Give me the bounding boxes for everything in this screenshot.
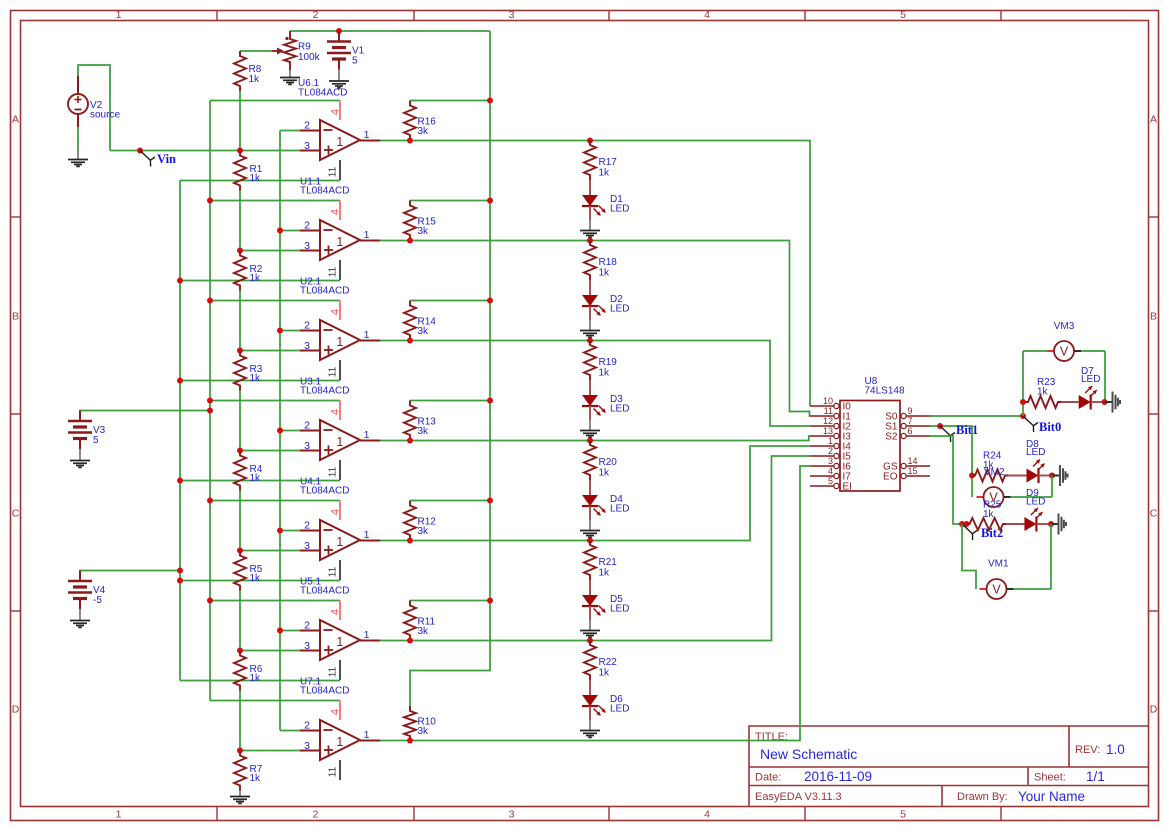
pull-up resistor R12: [410, 500, 490, 502]
U8 pin 15 (EO): [901, 473, 906, 478]
svg-text:1: 1: [364, 429, 370, 441]
svg-text:3k: 3k: [418, 326, 430, 337]
svg-text:1k: 1k: [599, 168, 611, 179]
svg-text:1: 1: [116, 9, 122, 21]
op-amp U1 pin stubs: [300, 130, 320, 132]
voltmeter VM2 loop: [971, 496, 973, 498]
svg-text:4: 4: [330, 109, 342, 115]
LED D5: [582, 595, 598, 606]
U8 pin 7 (S1): [901, 423, 906, 428]
svg-text:11: 11: [824, 406, 833, 416]
svg-text:2016-11-09: 2016-11-09: [804, 769, 872, 784]
voltmeter VM3 loop: [1023, 350, 1047, 352]
ladder resistor R2: [234, 251, 246, 291]
LED chain R17/D1: [587, 138, 593, 144]
svg-text:1: 1: [364, 129, 370, 141]
svg-text:D: D: [12, 704, 20, 716]
svg-text:1: 1: [336, 335, 343, 349]
svg-text:EO: EO: [883, 472, 898, 483]
stage 6 inverting input wire: [280, 630, 300, 632]
ground R7: [239, 791, 241, 797]
svg-text:1: 1: [364, 329, 370, 341]
svg-text:R20: R20: [599, 457, 618, 468]
ground D9: [1051, 523, 1059, 525]
stage 3 output wire: [380, 341, 810, 427]
svg-text:1: 1: [336, 135, 343, 149]
svg-text:2: 2: [304, 320, 310, 332]
svg-text:15: 15: [908, 466, 918, 476]
stage 3 inverting input wire: [280, 330, 300, 332]
svg-text:3: 3: [509, 9, 515, 21]
svg-text:11: 11: [328, 666, 339, 677]
stage 1 inverting input wire: [280, 130, 300, 132]
bus V- x=180: [179, 181, 181, 681]
svg-text:1k: 1k: [250, 773, 262, 784]
pull-up resistor R13: [410, 400, 490, 402]
op-amp stage 6 power rail: [210, 600, 340, 602]
bus V+ x=210: [209, 101, 211, 701]
svg-text:11: 11: [328, 266, 339, 277]
stage 6 non-inverting input wire: [240, 650, 300, 652]
svg-text:1k: 1k: [599, 368, 611, 379]
svg-text:C: C: [12, 508, 20, 520]
ladder resistor R7: [234, 751, 246, 791]
svg-text:11: 11: [328, 166, 339, 177]
ground D6: [589, 720, 591, 731]
ladder resistor R1: [234, 151, 246, 191]
svg-text:2: 2: [304, 420, 310, 432]
pull-up resistor R15: [410, 200, 490, 202]
svg-text:1: 1: [364, 229, 370, 241]
svg-text:1k: 1k: [249, 74, 261, 85]
svg-text:Your Name: Your Name: [1018, 789, 1085, 804]
svg-text:5: 5: [352, 56, 358, 67]
svg-text:13: 13: [823, 426, 833, 436]
svg-text:LED: LED: [1026, 447, 1045, 458]
stage 5 output wire: [380, 446, 810, 541]
op-amp U6 triangle: [320, 620, 360, 660]
+5 rail top: [290, 30, 490, 32]
op-amp U4 pin4: [339, 401, 341, 421]
svg-text:LED: LED: [610, 304, 629, 315]
battery V1: [336, 28, 342, 34]
LED D7: [1079, 395, 1091, 409]
stage 6 output wire: [380, 456, 810, 641]
svg-text:11: 11: [328, 566, 339, 577]
LED chain R21/D5: [587, 538, 593, 544]
op-amp U3 triangle: [320, 320, 360, 360]
stage 7 output wire: [380, 466, 810, 741]
ground D1: [589, 220, 591, 231]
svg-text:4: 4: [330, 209, 342, 215]
svg-text:A: A: [12, 114, 19, 126]
svg-text:1: 1: [364, 729, 370, 741]
source V2: [78, 65, 110, 151]
svg-text:3: 3: [509, 809, 515, 821]
op-amp U3 pin4: [339, 301, 341, 321]
svg-text:5: 5: [828, 476, 833, 486]
svg-text:LED: LED: [610, 404, 629, 415]
op-amp U5 pin stubs: [300, 530, 320, 532]
svg-text:2: 2: [304, 120, 310, 132]
svg-text:C: C: [1150, 508, 1158, 520]
bus inverting inputs x=280: [279, 131, 281, 731]
U8 pin 1 (I4): [810, 445, 834, 447]
svg-text:R9: R9: [298, 42, 311, 53]
stage 7 inverting input wire: [280, 730, 300, 732]
svg-text:REV:: REV:: [1075, 744, 1100, 756]
net flag Bit1: [940, 426, 955, 442]
op-amp U6 pin11: [339, 660, 341, 680]
svg-text:1: 1: [336, 735, 343, 749]
ground D2: [589, 320, 591, 331]
U8 pin 6 (S2): [901, 433, 906, 438]
svg-text:source: source: [90, 110, 120, 121]
svg-text:1: 1: [336, 235, 343, 249]
battery V3: [80, 411, 210, 422]
svg-text:4: 4: [330, 309, 342, 315]
LED chain R20/D4: [587, 438, 593, 444]
U8 pin 13 (I3): [810, 435, 834, 437]
svg-text:1k: 1k: [599, 468, 611, 479]
svg-text:3: 3: [304, 740, 310, 752]
svg-text:1k: 1k: [250, 673, 262, 684]
stage 2 output wire: [380, 241, 810, 417]
svg-text:VM3: VM3: [1054, 321, 1075, 332]
svg-text:74LS148: 74LS148: [865, 386, 905, 397]
svg-text:VM2: VM2: [984, 467, 1005, 478]
svg-text:1k: 1k: [599, 668, 611, 679]
pull-up resistor R14: [410, 300, 490, 302]
stage 4 inverting input wire: [280, 430, 300, 432]
svg-text:3: 3: [828, 456, 833, 466]
svg-text:1/1: 1/1: [1086, 769, 1105, 784]
svg-text:R18: R18: [599, 257, 618, 268]
LED D2: [582, 295, 598, 306]
op-amp U6 pin4: [339, 601, 341, 621]
stage 4 non-inverting input wire: [240, 450, 300, 452]
op-amp U2 pin stubs: [300, 230, 320, 232]
svg-text:10: 10: [823, 396, 833, 406]
LED D9: [1024, 517, 1036, 531]
LED D1: [582, 195, 598, 206]
pull-up resistor R16: [410, 100, 490, 102]
resistor R24: [972, 470, 1008, 482]
svg-text:3k: 3k: [418, 226, 430, 237]
svg-text:3: 3: [304, 540, 310, 552]
net S2/Bit2 wire: [930, 436, 962, 524]
op-amp U6 pin stubs: [300, 630, 320, 632]
title block: [749, 726, 1148, 806]
ground D7: [1105, 401, 1113, 403]
svg-text:New Schematic: New Schematic: [760, 746, 857, 762]
op-amp U1 pin4: [339, 101, 341, 121]
LED chain R19/D3: [587, 338, 593, 344]
U8 pin 14 (GS): [901, 463, 906, 468]
stage 2 inverting input wire: [280, 230, 300, 232]
svg-text:R17: R17: [599, 157, 618, 168]
svg-text:4: 4: [828, 466, 833, 476]
LED D4: [582, 495, 598, 506]
svg-text:12: 12: [823, 416, 833, 426]
ground D5: [589, 620, 591, 631]
op-amp U4 pin11: [339, 460, 341, 480]
svg-text:4: 4: [330, 409, 342, 415]
stage 2 V- rail: [180, 280, 340, 282]
svg-text:Drawn By:: Drawn By:: [957, 791, 1008, 803]
op-amp stage 3 power rail: [210, 300, 340, 302]
svg-text:3: 3: [304, 340, 310, 352]
stage 3 V- rail: [180, 380, 340, 382]
ground D8: [1052, 475, 1060, 477]
svg-text:R19: R19: [599, 357, 618, 368]
svg-text:3k: 3k: [418, 426, 430, 437]
svg-text:1k: 1k: [250, 473, 262, 484]
svg-text:3: 3: [304, 440, 310, 452]
ground D3: [589, 420, 591, 431]
svg-text:V: V: [992, 583, 1001, 597]
op-amp stage 1 power rail: [210, 100, 340, 102]
svg-text:4: 4: [704, 809, 710, 821]
U8 pin 2 (I5): [810, 455, 834, 457]
stage 7 non-inverting input wire: [240, 750, 300, 752]
svg-text:2: 2: [313, 809, 319, 821]
svg-text:1: 1: [336, 535, 343, 549]
svg-text:EI: EI: [843, 482, 852, 493]
resistor R8: [234, 51, 246, 91]
svg-text:1k: 1k: [250, 173, 262, 184]
svg-text:Sheet:: Sheet:: [1034, 772, 1066, 784]
LED chain R22/D6: [587, 638, 593, 644]
ladder resistor R4: [234, 451, 246, 491]
svg-text:100k: 100k: [298, 52, 321, 63]
stage 4 output wire: [380, 436, 810, 441]
svg-text:Bit1: Bit1: [956, 423, 978, 437]
svg-text:1k: 1k: [250, 573, 262, 584]
svg-text:4: 4: [330, 609, 342, 615]
svg-text:1.0: 1.0: [1106, 742, 1125, 757]
U8 pin 4 (I7): [810, 475, 834, 477]
svg-text:S2: S2: [885, 432, 898, 443]
ladder resistor R3: [234, 351, 246, 391]
svg-text:1: 1: [116, 809, 122, 821]
stage 1 V- rail: [180, 180, 340, 182]
op-amp U3 pin11: [339, 360, 341, 380]
LED chain R18/D2: [587, 238, 593, 244]
op-amp U7 pin4: [339, 701, 341, 721]
svg-text:TL084ACD: TL084ACD: [300, 186, 349, 197]
svg-text:TL084ACD: TL084ACD: [300, 386, 349, 397]
LED D6: [582, 695, 598, 706]
svg-text:TL084ACD: TL084ACD: [300, 286, 349, 297]
svg-text:4: 4: [330, 709, 342, 715]
svg-text:1k: 1k: [1037, 387, 1049, 398]
svg-text:6: 6: [908, 426, 913, 436]
svg-text:LED: LED: [610, 204, 629, 215]
svg-text:LED: LED: [610, 604, 629, 615]
svg-text:4: 4: [704, 9, 710, 21]
svg-text:LED: LED: [610, 704, 629, 715]
LED D3: [582, 395, 598, 406]
svg-text:1k: 1k: [250, 273, 262, 284]
svg-text:5: 5: [900, 9, 906, 21]
svg-text:1: 1: [336, 435, 343, 449]
svg-text:2: 2: [304, 520, 310, 532]
op-amp U2 triangle: [320, 220, 360, 260]
svg-text:TL084ACD: TL084ACD: [300, 586, 349, 597]
op-amp stage 5 power rail: [210, 500, 340, 502]
stage 6 V- rail: [180, 680, 340, 682]
voltmeter VM1 loop: [962, 524, 976, 589]
svg-text:11: 11: [328, 466, 339, 477]
ground D4: [589, 520, 591, 531]
battery V4: [80, 571, 180, 582]
op-amp U7 pin stubs: [300, 730, 320, 732]
svg-text:B: B: [1150, 311, 1157, 323]
svg-text:R22: R22: [599, 657, 618, 668]
svg-text:11: 11: [328, 766, 339, 777]
svg-text:7: 7: [908, 416, 913, 426]
svg-text:1: 1: [364, 529, 370, 541]
svg-text:D: D: [1150, 704, 1158, 716]
svg-text:Vin: Vin: [157, 152, 176, 166]
svg-text:A: A: [1150, 114, 1157, 126]
stage 1 non-inverting input wire: [110, 150, 300, 152]
stage 2 non-inverting input wire: [240, 250, 300, 252]
op-amp U5 triangle: [320, 520, 360, 560]
svg-text:1: 1: [828, 436, 833, 446]
op-amp stage 4 power rail: [210, 400, 340, 402]
svg-text:LED: LED: [1081, 374, 1100, 385]
op-amp stage 7 power rail: [210, 700, 340, 702]
Bit0 branch up: [1022, 351, 1024, 416]
svg-text:2: 2: [304, 620, 310, 632]
svg-text:VM1: VM1: [988, 559, 1009, 570]
svg-text:TL084ACD: TL084ACD: [300, 686, 349, 697]
svg-text:V: V: [1060, 345, 1069, 359]
U8 pin 3 (I6): [810, 465, 834, 467]
svg-text:LED: LED: [1026, 497, 1045, 508]
net flag Bit2: [962, 524, 977, 540]
net S1/Bit1 wire: [930, 426, 972, 497]
stage 5 inverting input wire: [280, 530, 300, 532]
U8 pin 11 (I1): [810, 415, 834, 417]
svg-text:TL084ACD: TL084ACD: [300, 486, 349, 497]
svg-text:Bit0: Bit0: [1039, 420, 1061, 434]
svg-text:R21: R21: [599, 557, 618, 568]
net flag Bit0: [1023, 416, 1038, 432]
svg-text:3: 3: [304, 640, 310, 652]
op-amp U4 triangle: [320, 420, 360, 460]
IC U8 74LS148 body: [840, 401, 900, 492]
svg-text:3k: 3k: [418, 526, 430, 537]
svg-text:1k: 1k: [599, 568, 611, 579]
svg-text:2: 2: [304, 720, 310, 732]
op-amp U7 pin11: [339, 760, 341, 780]
svg-text:3k: 3k: [418, 126, 430, 137]
U8 pin 10 (I0): [810, 405, 834, 407]
stage 5 non-inverting input wire: [240, 550, 300, 552]
ladder resistor R5: [234, 551, 246, 591]
svg-text:11: 11: [328, 366, 339, 377]
op-amp U7 triangle: [320, 720, 360, 760]
svg-text:5: 5: [93, 435, 99, 446]
svg-text:TL084ACD: TL084ACD: [298, 88, 347, 99]
op-amp U4 pin stubs: [300, 430, 320, 432]
op-amp U1 triangle: [320, 120, 360, 160]
op-amp U1 pin11: [339, 160, 341, 180]
bus +5 ladder x=490: [410, 31, 490, 706]
op-amp U5 pin4: [339, 501, 341, 521]
svg-text:EasyEDA V3.11.3: EasyEDA V3.11.3: [755, 791, 842, 803]
svg-text:4: 4: [330, 509, 342, 515]
svg-text:2: 2: [313, 9, 319, 21]
ground R9: [289, 70, 291, 78]
svg-text:1: 1: [364, 629, 370, 641]
svg-text:3: 3: [304, 140, 310, 152]
pull-up resistor R10: [404, 706, 416, 741]
svg-text:LED: LED: [610, 504, 629, 515]
net S0/Bit0 wire: [930, 415, 1023, 417]
op-amp U2 pin4: [339, 201, 341, 221]
U8 pin 12 (I2): [810, 425, 834, 427]
op-amp U3 pin stubs: [300, 330, 320, 332]
resistor R23: [1025, 396, 1061, 408]
svg-text:1k: 1k: [250, 373, 262, 384]
svg-text:1k: 1k: [983, 509, 995, 520]
svg-text:9: 9: [908, 406, 913, 416]
stage 1 output wire: [380, 141, 810, 407]
svg-text:B: B: [12, 311, 19, 323]
svg-text:1: 1: [336, 635, 343, 649]
svg-text:3: 3: [304, 240, 310, 252]
U8 pin 5 (EI): [810, 485, 834, 487]
svg-text:14: 14: [908, 456, 918, 466]
op-amp U5 pin11: [339, 560, 341, 580]
svg-text:1k: 1k: [599, 268, 611, 279]
net flag Vin: [140, 151, 155, 167]
U8 pin 9 (S0): [901, 413, 906, 418]
stage 3 non-inverting input wire: [240, 350, 300, 352]
ladder resistor R6: [234, 651, 246, 691]
pull-up resistor R11: [410, 600, 490, 602]
stage 5 V- rail: [180, 580, 340, 582]
svg-text:3k: 3k: [418, 626, 430, 637]
svg-text:Date:: Date:: [755, 772, 781, 784]
LED D8: [1027, 469, 1039, 483]
svg-text:3k: 3k: [418, 726, 430, 737]
potentiometer R9: [284, 34, 296, 67]
svg-text:5: 5: [900, 809, 906, 821]
op-amp stage 2 power rail: [210, 200, 340, 202]
svg-text:2: 2: [304, 220, 310, 232]
svg-text:-5: -5: [93, 595, 102, 606]
stage 4 V- rail: [180, 480, 340, 482]
resistor R25: [967, 518, 1007, 530]
svg-text:2: 2: [828, 446, 833, 456]
op-amp U2 pin11: [339, 260, 341, 280]
